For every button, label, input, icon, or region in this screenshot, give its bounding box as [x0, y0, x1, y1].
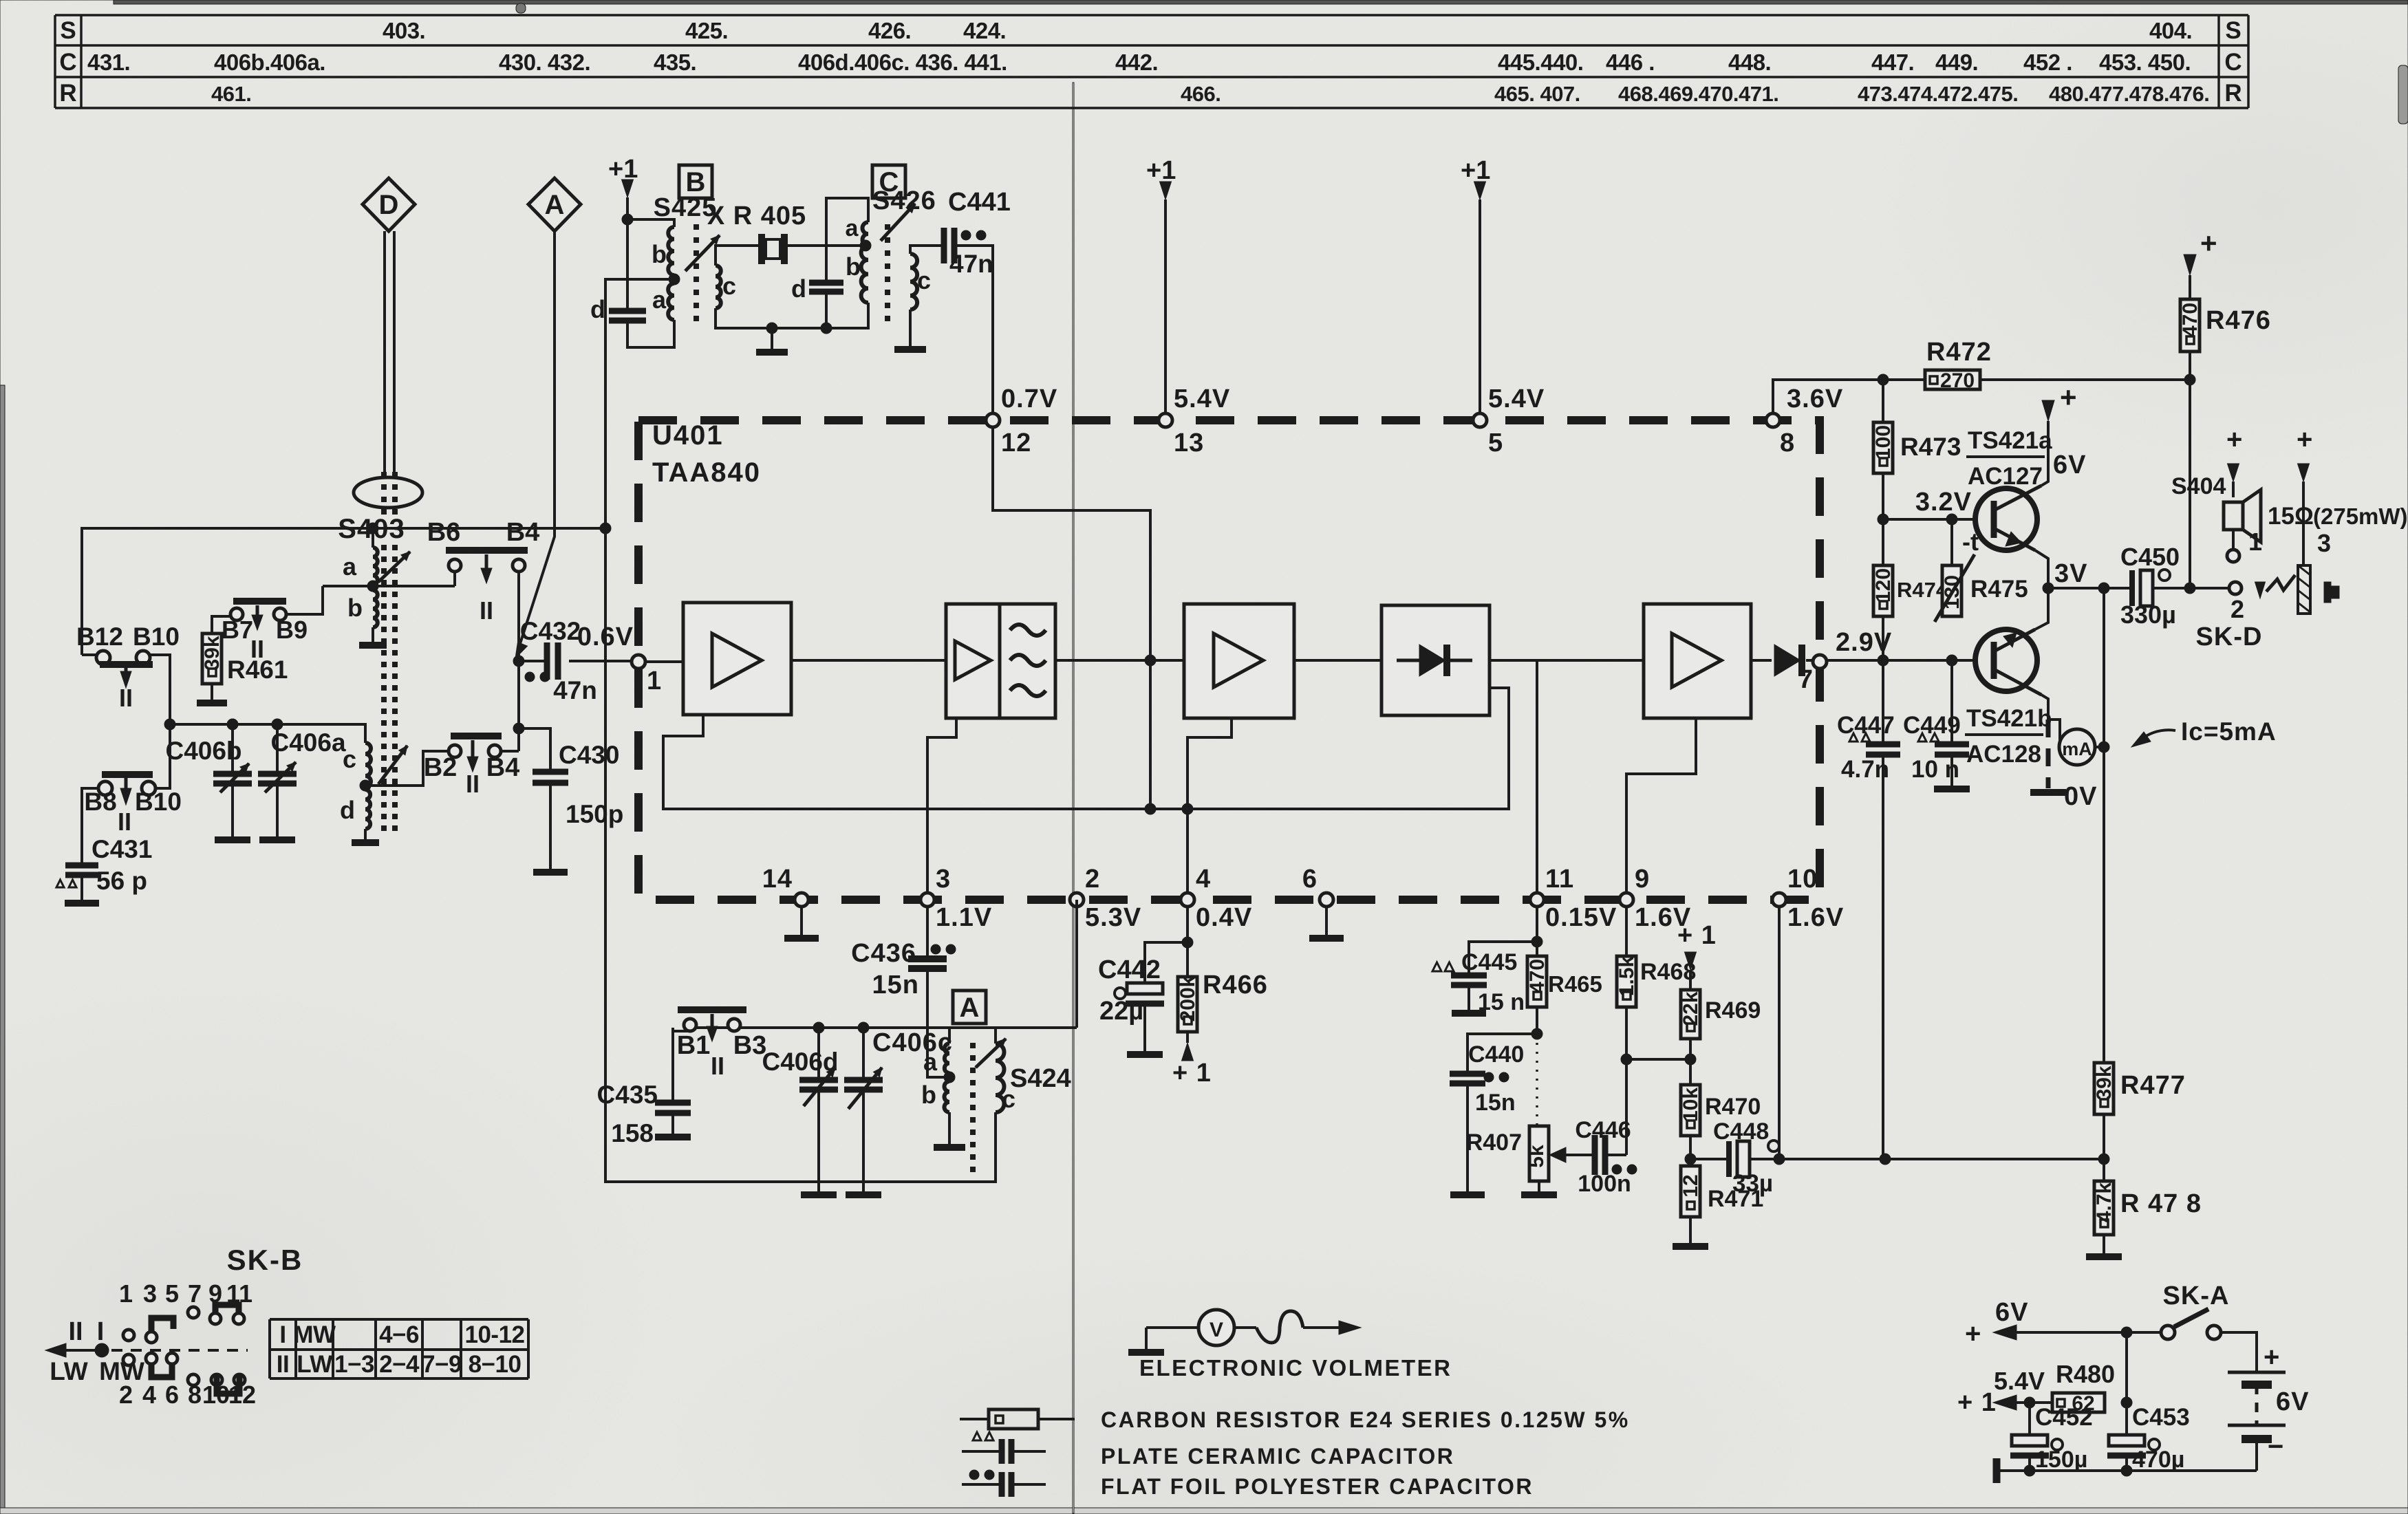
- wire junction to R469: [1626, 1058, 1690, 1061]
- svg-text:4: 4: [142, 1381, 156, 1409]
- wire battery bottom rail: [1997, 1469, 2257, 1472]
- switch B8 B10: [102, 771, 153, 778]
- node R466 top: [1182, 937, 1193, 948]
- capacitor C446: [1592, 1135, 1598, 1175]
- wire R465 to R407 dotted: [1536, 1034, 1538, 1126]
- svg-text:U401: U401: [652, 420, 724, 451]
- node fb 1: [1145, 803, 1156, 814]
- node tap ab: [367, 581, 378, 592]
- ground pin 14: [800, 907, 803, 938]
- svg-text:(275mW): (275mW): [2313, 504, 2408, 529]
- svg-text:6: 6: [1302, 865, 1318, 894]
- wire to SK-D: [2190, 587, 2228, 590]
- pin 2: [1070, 893, 1084, 907]
- wire block4 out to pin11: [1490, 660, 1537, 893]
- svg-text:a: a: [343, 552, 357, 581]
- svg-text:6V: 6V: [2053, 451, 2086, 479]
- label B: [679, 165, 712, 198]
- svg-text:404.: 404.: [2149, 18, 2192, 43]
- svg-text:C449: C449: [1903, 712, 1961, 739]
- wire oscillator line: [690, 1026, 1077, 1029]
- svg-text:442.: 442.: [1115, 50, 1158, 75]
- wire block2 tap to pin3: [927, 718, 956, 893]
- svg-text:2: 2: [2230, 595, 2244, 623]
- node S426 ab: [860, 240, 871, 251]
- svg-text:39k: 39k: [201, 636, 224, 670]
- svg-text:9: 9: [1635, 865, 1650, 894]
- svg-text:II: II: [277, 1351, 289, 1378]
- node R469 bottom: [1685, 1054, 1696, 1065]
- svg-text:−: −: [2268, 1431, 2283, 1462]
- switch B1 B3: [678, 1006, 746, 1013]
- svg-text:+: +: [2264, 1342, 2279, 1372]
- svg-text:10: 10: [1787, 865, 1818, 894]
- ground coil d: [364, 829, 367, 843]
- svg-text:10-12: 10-12: [464, 1321, 524, 1348]
- wire R480 left: [2030, 1401, 2052, 1404]
- wire tuning line: [170, 724, 365, 743]
- pin 13: [1159, 413, 1172, 427]
- svg-text:12: 12: [1001, 429, 1031, 457]
- svg-text:S: S: [60, 17, 76, 44]
- svg-text:11: 11: [1545, 865, 1574, 894]
- antenna D: [363, 178, 415, 231]
- capacitor C441: [941, 228, 947, 263]
- svg-text:5: 5: [165, 1279, 179, 1308]
- svg-text:X R 405: X R 405: [707, 202, 806, 230]
- wire tap ab: [323, 585, 455, 587]
- ground R471: [1689, 1217, 1692, 1243]
- pin 7: [1813, 655, 1827, 669]
- legend ceramic capacitor: [973, 1432, 981, 1440]
- svg-text:445.440.: 445.440.: [1498, 50, 1583, 75]
- svg-text:0V: 0V: [2064, 782, 2097, 811]
- svg-text:B12: B12: [76, 623, 123, 651]
- SK-B bridge 9-11: [210, 1313, 221, 1324]
- node 3V: [2043, 583, 2054, 594]
- resistor R472: [1925, 370, 1980, 389]
- wire B4 down: [517, 572, 520, 751]
- svg-text:B6: B6: [427, 518, 461, 547]
- wire B8 to C431: [82, 788, 99, 864]
- wire B4 lower: [501, 750, 519, 753]
- svg-text:AC127: AC127: [1968, 463, 2043, 490]
- wire pin2 down: [1075, 900, 1078, 1028]
- coil S403b: [373, 590, 378, 627]
- svg-text:C442: C442: [1098, 955, 1161, 984]
- svg-text:22k: 22k: [1679, 991, 1702, 1026]
- svg-text:7: 7: [188, 1279, 202, 1308]
- node gnd BC: [766, 323, 777, 334]
- svg-text:C436: C436: [851, 939, 916, 968]
- svg-text:150p: 150p: [566, 800, 623, 828]
- svg-text:R472: R472: [1926, 338, 1992, 367]
- svg-text:+ 1: + 1: [1677, 921, 1717, 950]
- svg-text:15n: 15n: [872, 971, 919, 999]
- node meter: [2098, 742, 2109, 753]
- SK-B contact 2: [123, 1354, 134, 1365]
- svg-text:B10: B10: [135, 788, 182, 816]
- svg-text:10k: 10k: [1679, 1088, 1702, 1122]
- svg-text:R480: R480: [2056, 1360, 2115, 1388]
- supply +1 R466: [1186, 1032, 1189, 1043]
- ground BC: [771, 328, 773, 352]
- svg-text:39k: 39k: [2093, 1066, 2116, 1100]
- svg-text:3.2V: 3.2V: [1915, 488, 1972, 517]
- node C430 tap: [513, 723, 524, 734]
- svg-text:+: +: [2200, 227, 2217, 259]
- capacitor S425d: [609, 308, 646, 314]
- ground coil b: [372, 627, 374, 645]
- SK-B arrow: [55, 1349, 98, 1352]
- svg-text:480.477.478.476.: 480.477.478.476.: [2049, 82, 2209, 106]
- svg-text:2: 2: [1085, 865, 1100, 894]
- svg-text:V: V: [1210, 1319, 1223, 1341]
- svg-text:C432: C432: [520, 617, 581, 645]
- wire to coil b top: [627, 219, 674, 227]
- pin 8: [1766, 413, 1780, 427]
- wire A to C432: [517, 231, 555, 652]
- svg-text:R468: R468: [1640, 959, 1696, 985]
- svg-text:403.: 403.: [383, 18, 425, 43]
- wire emitter a: [2035, 550, 2048, 588]
- wire SK-A to battery: [2221, 1332, 2257, 1361]
- wire B2 to coil tap: [365, 751, 449, 786]
- svg-text:mA: mA: [2062, 739, 2092, 759]
- pin 12: [986, 413, 1000, 427]
- coil S403c: [365, 743, 371, 787]
- svg-text:R465: R465: [1548, 971, 1602, 997]
- SK-B bridge 10-12: [211, 1374, 222, 1385]
- svg-text:466.: 466.: [1181, 82, 1221, 106]
- capacitor C449: [1950, 660, 1953, 744]
- svg-text:MW: MW: [293, 1321, 336, 1348]
- svg-text:C440: C440: [1468, 1041, 1524, 1068]
- amp block 5: [1644, 604, 1751, 718]
- svg-text:435.: 435.: [654, 50, 696, 75]
- voltmeter symbol: [1145, 1328, 1148, 1352]
- wire base line a: [1883, 518, 1977, 521]
- svg-text:B7: B7: [222, 616, 253, 644]
- svg-text:446 .: 446 .: [1606, 50, 1655, 75]
- trimmer arrow S425: [685, 235, 720, 271]
- milliammeter mA: [2048, 720, 2060, 747]
- resistor R468: [1617, 956, 1636, 1007]
- pin 9: [1620, 893, 1633, 907]
- ferrite rod S403: [354, 477, 422, 508]
- svg-text:II: II: [480, 596, 493, 625]
- svg-text:R477: R477: [2120, 1071, 2186, 1100]
- svg-text:C: C: [2224, 49, 2242, 76]
- svg-text:C447: C447: [1837, 712, 1895, 739]
- wire collector dashed: [2046, 720, 2051, 788]
- switch B12 B10: [82, 653, 97, 656]
- node rail R477: [2098, 1154, 2109, 1165]
- node C449 top: [1946, 655, 1957, 666]
- svg-text:+: +: [2060, 381, 2077, 413]
- wire B10 lower: [155, 724, 170, 788]
- switch B6 B4: [446, 547, 528, 554]
- resistor R480: [2052, 1393, 2105, 1412]
- svg-text:5.4V: 5.4V: [1174, 385, 1230, 413]
- svg-text:0.4V: 0.4V: [1196, 903, 1252, 932]
- ground C440: [1466, 1083, 1469, 1191]
- resistor R477: [2094, 1063, 2114, 1114]
- node pin9 junction: [1621, 1054, 1632, 1065]
- capacitor C406d variable: [817, 1028, 820, 1080]
- svg-text:A: A: [545, 190, 565, 220]
- core S426: [885, 225, 890, 230]
- resistor R469: [1681, 990, 1700, 1039]
- svg-text:C435: C435: [597, 1081, 658, 1109]
- amp block 3: [1184, 604, 1294, 718]
- SK-B contact 7: [188, 1307, 199, 1318]
- resistor R461: [202, 634, 222, 684]
- svg-text:470µ: 470µ: [2132, 1447, 2184, 1473]
- svg-text:425.: 425.: [685, 18, 728, 43]
- svg-text:8: 8: [1780, 429, 1795, 457]
- svg-text:R407: R407: [1466, 1129, 1522, 1156]
- svg-text:470: 470: [1526, 959, 1549, 993]
- wire cap d bottom loop: [627, 320, 674, 347]
- wire pin8 up: [1773, 380, 1925, 413]
- detector block 4: [1382, 605, 1490, 715]
- wire B6 down: [453, 572, 456, 586]
- svg-text:5.3V: 5.3V: [1085, 903, 1141, 932]
- core S425: [694, 225, 699, 230]
- wire S426 top rect: [826, 198, 868, 283]
- svg-text:C445: C445: [1461, 949, 1517, 975]
- svg-text:+: +: [2226, 424, 2242, 455]
- trimmer arrow S403c: [378, 746, 407, 784]
- svg-text:4−6: 4−6: [379, 1321, 419, 1348]
- wire pin11 down: [1536, 907, 1538, 942]
- svg-text:+: +: [1965, 1319, 1981, 1349]
- svg-text:C406a: C406a: [270, 728, 345, 757]
- wire antenna line: [82, 528, 605, 655]
- pin 5: [1473, 413, 1487, 427]
- node signal tap: [1145, 655, 1156, 666]
- svg-text:II: II: [118, 808, 131, 836]
- svg-text:6V: 6V: [1995, 1298, 2028, 1327]
- svg-text:3: 3: [936, 865, 951, 894]
- node S425 tap: [669, 274, 680, 285]
- svg-text:120: 120: [1872, 568, 1895, 603]
- node rail C447: [1880, 1154, 1891, 1165]
- wire collector a: [2041, 421, 2048, 486]
- node C453 bottom: [2121, 1465, 2132, 1476]
- svg-text:S: S: [2225, 17, 2241, 44]
- svg-text:448.: 448.: [1728, 50, 1771, 75]
- capacitor C445: [1432, 962, 1441, 971]
- svg-text:S426: S426: [872, 186, 936, 215]
- wire B1 to C435: [673, 1030, 690, 1032]
- wire C446 right: [1605, 1154, 1626, 1156]
- svg-text:C: C: [59, 49, 76, 76]
- diode pin7: [1774, 645, 1800, 676]
- potentiometer R407: [1529, 1126, 1549, 1181]
- wire emitter b: [2035, 588, 2048, 629]
- svg-text:1: 1: [119, 1279, 133, 1308]
- capacitor C406c variable: [862, 1028, 865, 1080]
- svg-text:C450: C450: [2120, 543, 2180, 571]
- switch SK-A: [2161, 1326, 2175, 1339]
- svg-text:B4: B4: [506, 518, 540, 547]
- svg-text:100n: 100n: [1578, 1171, 1631, 1197]
- node C452 top: [2024, 1397, 2035, 1408]
- svg-text:I: I: [279, 1321, 286, 1348]
- svg-text:4.7k: 4.7k: [2093, 1182, 2116, 1222]
- coil S426b: [861, 246, 868, 303]
- resistor R471: [1689, 1159, 1692, 1166]
- capacitor C448: [1690, 1158, 1729, 1160]
- svg-text:100: 100: [1872, 425, 1895, 459]
- svg-text:452 .: 452 .: [2023, 50, 2072, 75]
- svg-text:270: 270: [1940, 369, 1975, 392]
- svg-text:5k: 5k: [1525, 1145, 1548, 1168]
- svg-text:R469: R469: [1705, 997, 1761, 1024]
- svg-text:424.: 424.: [963, 18, 1006, 43]
- svg-text:D: D: [379, 190, 399, 220]
- wire R477 column: [2103, 588, 2105, 1063]
- svg-text:R470: R470: [1705, 1094, 1761, 1120]
- contact SK-D 1: [2227, 550, 2239, 562]
- node R477 tap: [2098, 583, 2109, 594]
- svg-text:4: 4: [1196, 865, 1211, 894]
- wire S426c top: [910, 246, 944, 254]
- transistor TS421b: [1975, 629, 2037, 691]
- ground R407: [1538, 1181, 1540, 1191]
- wire coil c bottom: [716, 308, 772, 328]
- label A: [953, 991, 986, 1024]
- svg-text:468.469.470.471.: 468.469.470.471.: [1618, 82, 1778, 106]
- svg-text:+: +: [2297, 424, 2312, 455]
- coil S403a: [372, 528, 374, 548]
- svg-text:473.474.472.475.: 473.474.472.475.: [1858, 82, 2018, 106]
- svg-text:461.: 461.: [211, 82, 251, 106]
- node S426d bottom: [821, 323, 832, 334]
- resistor R470: [1689, 1059, 1692, 1085]
- core S424: [971, 1043, 976, 1048]
- node C406d: [813, 1022, 824, 1033]
- svg-text:d: d: [791, 274, 806, 303]
- svg-text:3: 3: [2317, 529, 2331, 557]
- svg-text:a: a: [652, 285, 667, 314]
- svg-text:0.15V: 0.15V: [1545, 903, 1617, 932]
- svg-text:158: 158: [611, 1119, 654, 1147]
- svg-text:470: 470: [2179, 303, 2202, 337]
- svg-text:426.: 426.: [868, 18, 911, 43]
- wire 6V line: [2002, 1331, 2168, 1334]
- svg-text:d: d: [340, 796, 355, 824]
- wire to C430: [519, 728, 550, 772]
- capacitor C447: [1882, 660, 1884, 744]
- svg-text:II: II: [68, 1317, 83, 1346]
- svg-text:15Ω: 15Ω: [2268, 503, 2314, 530]
- svg-text:150µ: 150µ: [2035, 1447, 2087, 1473]
- amp block 2 IF: [946, 604, 1055, 718]
- svg-text:406d.406c. 436. 441.: 406d.406c. 436. 441.: [798, 50, 1007, 75]
- svg-text:C453: C453: [2132, 1404, 2190, 1431]
- svg-text:447.: 447.: [1871, 50, 1914, 75]
- ground C442: [1143, 1004, 1146, 1051]
- svg-text:1: 1: [2248, 528, 2262, 556]
- wire XR405 to S426: [785, 244, 866, 247]
- svg-text:1.1V: 1.1V: [936, 903, 992, 932]
- SK-B bridge 4-6: [146, 1353, 157, 1364]
- svg-text:B4: B4: [486, 753, 520, 782]
- trimmer arrow S424: [976, 1039, 1006, 1068]
- node rail R470: [1685, 1154, 1696, 1165]
- svg-text:449.: 449.: [1935, 50, 1978, 75]
- resistor R465: [1536, 942, 1538, 956]
- svg-text:6V: 6V: [2276, 1387, 2309, 1416]
- wire to C445: [1469, 942, 1537, 975]
- SK-B dashed line: [111, 1349, 248, 1352]
- svg-text:14: 14: [762, 865, 793, 894]
- capacitor C440: [1450, 1071, 1485, 1077]
- node C432: [513, 656, 524, 667]
- switch B7 B9: [233, 598, 286, 605]
- svg-text:C406c: C406c: [872, 1028, 953, 1057]
- svg-text:431.: 431.: [87, 50, 130, 75]
- svg-text:C446: C446: [1575, 1117, 1631, 1143]
- svg-text:5.4V: 5.4V: [1994, 1367, 2045, 1395]
- wiper C446 to R407: [1556, 1154, 1595, 1156]
- resistor R475 thermistor: [1950, 519, 1953, 565]
- SK-B contact 1: [123, 1330, 134, 1341]
- svg-text:R 47 8: R 47 8: [2120, 1189, 2202, 1218]
- wire speaker to contact1: [2232, 530, 2235, 549]
- ground R478: [2103, 1235, 2105, 1253]
- wire pin12 to signal: [993, 427, 1150, 809]
- wire rail: [1750, 1158, 2104, 1160]
- paper shading: [114, 0, 2408, 4]
- node tap cd: [360, 780, 371, 791]
- capacitor C436: [926, 907, 929, 959]
- wire B9 up: [286, 586, 323, 614]
- wire R472 right: [1980, 378, 2190, 381]
- wire C441 to pin12: [954, 246, 993, 413]
- svg-text:200k: 200k: [1176, 975, 1199, 1021]
- svg-text:1.6V: 1.6V: [1787, 903, 1844, 932]
- svg-text:B10: B10: [133, 623, 180, 651]
- svg-text:330µ: 330µ: [2120, 601, 2176, 629]
- svg-text:R: R: [2224, 80, 2242, 107]
- coil S425a: [668, 283, 674, 320]
- svg-text:12: 12: [1679, 1174, 1702, 1197]
- svg-text:R466: R466: [1203, 971, 1268, 999]
- wire B7 to R461: [212, 616, 231, 634]
- svg-text:22µ: 22µ: [1099, 997, 1143, 1026]
- pin 14: [795, 893, 808, 907]
- svg-text:B9: B9: [276, 616, 308, 644]
- wire pin10 down: [1778, 907, 1781, 1159]
- transistor TS421a: [1975, 488, 2037, 550]
- node C447 top: [1878, 655, 1889, 666]
- capacitor C432: [519, 660, 547, 662]
- svg-text:AC128: AC128: [1966, 741, 2041, 768]
- pin 11: [1530, 893, 1544, 907]
- svg-text:R: R: [59, 80, 76, 107]
- wire block5 tap to pin9: [1626, 718, 1696, 893]
- svg-text:PLATE CERAMIC CAPACITOR: PLATE CERAMIC CAPACITOR: [1101, 1444, 1454, 1469]
- svg-text:c: c: [722, 272, 736, 300]
- node R465 bottom: [1531, 1028, 1542, 1039]
- wire internal feedback: [663, 688, 1509, 809]
- wire R476 to 3V node: [2189, 380, 2191, 588]
- node C450 out: [2184, 583, 2195, 594]
